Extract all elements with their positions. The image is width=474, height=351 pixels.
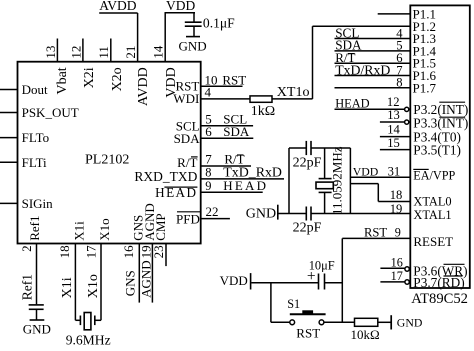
- svg-text:16: 16: [121, 245, 136, 259]
- svg-text:AGND: AGND: [138, 260, 153, 298]
- svg-text:SDA: SDA: [174, 131, 201, 146]
- svg-text:XTAL0: XTAL0: [413, 195, 451, 209]
- svg-text:X2i: X2i: [82, 67, 97, 88]
- svg-text:4: 4: [205, 84, 212, 99]
- svg-text:9: 9: [395, 225, 401, 239]
- svg-text:GND: GND: [179, 39, 207, 54]
- svg-text:0.1μF: 0.1μF: [203, 16, 235, 31]
- svg-text:P3.7(RD): P3.7(RD): [413, 275, 464, 290]
- svg-text:X2o: X2o: [110, 67, 125, 91]
- svg-text:FLTi: FLTi: [22, 155, 47, 170]
- svg-text:RXD_TXD: RXD_TXD: [134, 169, 197, 184]
- svg-text:VDD: VDD: [220, 273, 248, 288]
- svg-text:RST: RST: [296, 326, 320, 341]
- svg-text:EA/VPP: EA/VPP: [413, 168, 455, 182]
- svg-text:PFD: PFD: [176, 211, 200, 226]
- svg-text:SDA: SDA: [223, 124, 250, 139]
- svg-text:9.6MHz: 9.6MHz: [66, 333, 111, 346]
- svg-text:GND: GND: [397, 316, 423, 330]
- svg-text:15: 15: [387, 136, 400, 150]
- svg-text:S1: S1: [287, 297, 300, 311]
- svg-text:14: 14: [387, 123, 400, 137]
- svg-text:XT1o: XT1o: [277, 85, 310, 100]
- svg-text:CMP: CMP: [153, 213, 168, 240]
- svg-text:2: 2: [19, 245, 34, 252]
- svg-text:PSK_OUT: PSK_OUT: [22, 105, 79, 120]
- svg-text:GNS: GNS: [123, 270, 138, 296]
- svg-text:HEAD: HEAD: [335, 97, 369, 111]
- svg-text:22pF: 22pF: [293, 156, 322, 171]
- svg-text:13: 13: [43, 46, 58, 59]
- svg-text:31: 31: [388, 164, 401, 178]
- svg-text:X1i: X1i: [60, 277, 75, 298]
- svg-text:Vbat: Vbat: [55, 67, 70, 94]
- svg-text:23: 23: [151, 245, 166, 258]
- svg-text:9: 9: [205, 179, 211, 193]
- svg-text:11.0592MHz: 11.0592MHz: [330, 146, 345, 215]
- svg-text:RESET: RESET: [413, 234, 453, 249]
- svg-text:VDD: VDD: [353, 164, 379, 178]
- svg-text:HEAD: HEAD: [223, 178, 268, 193]
- svg-text:P3.2(INT): P3.2(INT): [413, 102, 468, 117]
- svg-text:VDD: VDD: [166, 0, 195, 13]
- svg-text:17: 17: [84, 245, 99, 259]
- svg-text:RST: RST: [364, 225, 387, 239]
- svg-text:X1o: X1o: [86, 274, 101, 298]
- svg-text:8: 8: [396, 76, 402, 90]
- svg-text:AVDD: AVDD: [99, 0, 137, 13]
- svg-text:10kΩ: 10kΩ: [351, 327, 380, 342]
- svg-text:R/T: R/T: [224, 152, 244, 167]
- svg-text:11: 11: [96, 46, 111, 59]
- svg-text:PL2102: PL2102: [85, 153, 129, 168]
- svg-text:AT89C52: AT89C52: [411, 291, 468, 307]
- svg-text:Dout: Dout: [22, 82, 48, 97]
- svg-text:8: 8: [205, 166, 211, 180]
- svg-text:12: 12: [68, 46, 83, 59]
- svg-text:22pF: 22pF: [293, 221, 322, 236]
- svg-text:AVDD: AVDD: [136, 67, 151, 106]
- svg-text:14: 14: [151, 45, 166, 59]
- svg-text:10μF: 10μF: [309, 259, 335, 273]
- svg-text:17: 17: [391, 269, 403, 283]
- svg-text:1kΩ: 1kΩ: [251, 104, 275, 119]
- svg-text:X1i: X1i: [71, 221, 86, 241]
- svg-text:21: 21: [123, 46, 138, 59]
- svg-text:13: 13: [387, 108, 400, 122]
- svg-text:WDI: WDI: [173, 91, 199, 106]
- svg-text:7: 7: [205, 152, 212, 167]
- svg-text:XTAL1: XTAL1: [413, 208, 451, 222]
- svg-text:P3.5(T1): P3.5(T1): [413, 142, 461, 157]
- svg-text:6: 6: [205, 124, 212, 139]
- svg-text:SIGin: SIGin: [22, 196, 54, 211]
- svg-text:P1.7: P1.7: [413, 80, 437, 95]
- svg-text:TxD/RxD: TxD/RxD: [335, 62, 390, 77]
- svg-text:X1o: X1o: [97, 218, 112, 240]
- svg-text:16: 16: [391, 256, 403, 270]
- svg-text:19: 19: [390, 202, 403, 216]
- svg-text:Ref1: Ref1: [27, 216, 42, 241]
- svg-text:GND: GND: [246, 207, 276, 222]
- svg-text:GND: GND: [23, 322, 51, 337]
- svg-text:18: 18: [57, 245, 72, 258]
- svg-text:FLTo: FLTo: [22, 130, 50, 145]
- svg-text:RST: RST: [222, 72, 246, 87]
- svg-text:Ref1: Ref1: [19, 274, 34, 300]
- svg-text:18: 18: [390, 188, 403, 202]
- svg-text:22: 22: [206, 204, 219, 219]
